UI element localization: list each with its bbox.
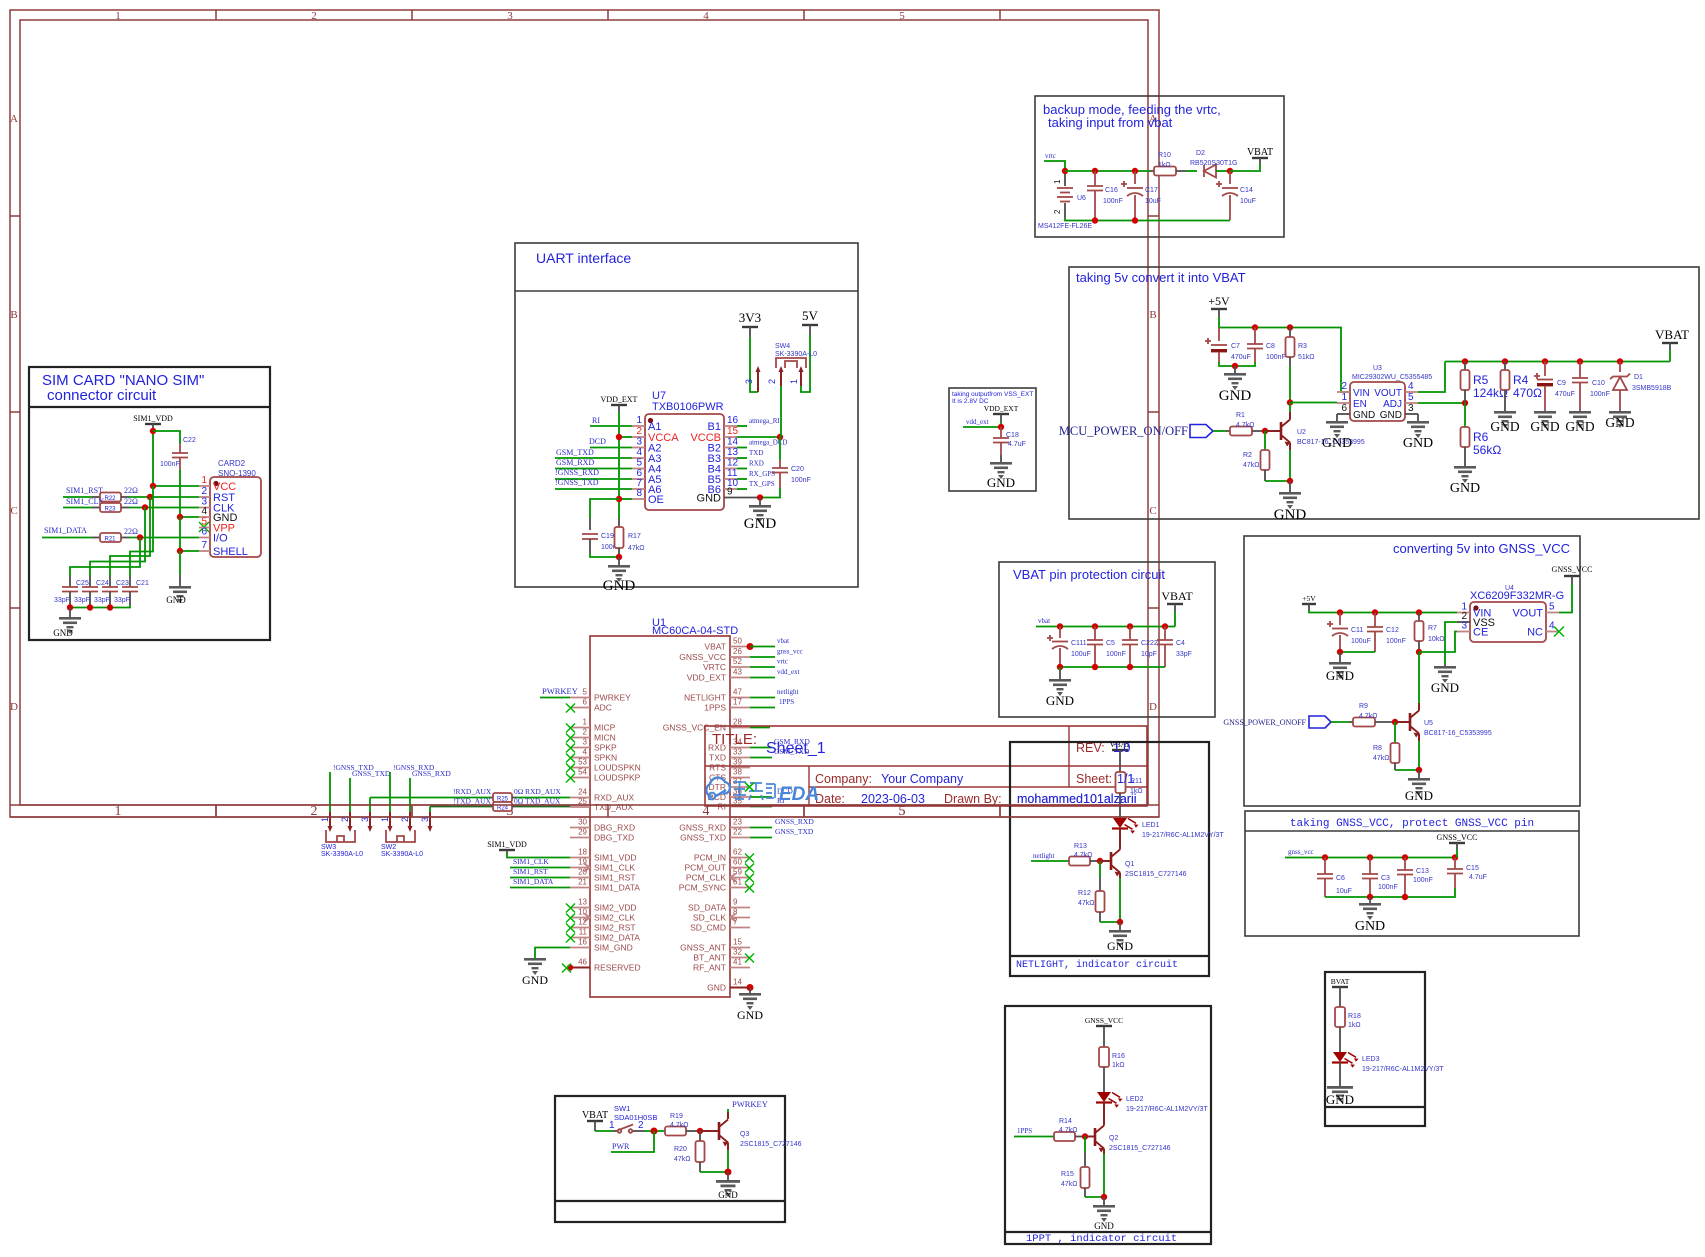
junction C6 top [1322, 854, 1328, 860]
svg-text:GNSS_RXD: GNSS_RXD [412, 769, 451, 778]
junction vdd_ext [998, 424, 1004, 430]
svg-text:100nF: 100nF [1386, 638, 1406, 645]
svg-text:TXD: TXD [709, 753, 726, 763]
svg-text:R18: R18 [1348, 1013, 1361, 1020]
wire C19 bottom to GND node [590, 553, 619, 557]
svg-text:VBAT pin protection circuit: VBAT pin protection circuit [1013, 567, 1165, 582]
svg-text:1: 1 [1053, 179, 1062, 184]
op-amp U7 TXB0106PWR body [645, 414, 724, 510]
svg-text:C20: C20 [791, 466, 804, 473]
frame row ticks right [1148, 216, 1159, 608]
svg-text:39: 39 [733, 758, 742, 767]
svg-text:5: 5 [1549, 602, 1555, 613]
svg-text:!GNSS_RXD: !GNSS_RXD [555, 468, 599, 477]
resistor R12 [1078, 877, 1105, 922]
net label GNSS_RXD wire [750, 827, 772, 829]
wire bottom rail backup [1065, 218, 1230, 221]
switch SW4 SK-3390A-L0 [744, 343, 817, 437]
svg-text:17: 17 [733, 698, 742, 707]
U1 pin 50 VBAT [704, 637, 753, 652]
svg-text:GND: GND [603, 578, 636, 594]
svg-text:2: 2 [201, 486, 207, 497]
wire R12 bottom to emitter node [1100, 921, 1120, 923]
SIM block title divider [29, 406, 270, 408]
svg-text:51kΩ: 51kΩ [1298, 354, 1315, 361]
U1 pin 30 DBG_RXD [570, 818, 635, 833]
svg-text:1: 1 [583, 718, 588, 727]
power flag BVAT [1331, 977, 1350, 1007]
UART block border [515, 243, 858, 587]
U3 pin 6 GND [1337, 403, 1375, 421]
svg-text:U2: U2 [1297, 429, 1306, 436]
svg-text:5: 5 [1408, 392, 1414, 403]
resistor R1 [1226, 412, 1265, 436]
U7 pin 3 A2 [632, 437, 661, 455]
svg-text:CARD2: CARD2 [218, 459, 246, 468]
svg-text:47kΩ: 47kΩ [1078, 900, 1095, 907]
wire caps bottom rail [70, 605, 130, 608]
svg-text:470uF: 470uF [1555, 391, 1575, 398]
U7 pin 6 A5 [632, 468, 661, 486]
svg-text:gnss_vcc: gnss_vcc [1288, 848, 1314, 856]
resistor R25 [490, 787, 524, 803]
junction emitter node U5 [1416, 767, 1422, 773]
svg-text:taking outputfrom VSS_EXT: taking outputfrom VSS_EXT [952, 391, 1033, 398]
capacitor C6 [1317, 858, 1352, 898]
svg-text:SW3: SW3 [321, 844, 336, 851]
ground GND under Q2 [1093, 1197, 1115, 1231]
U1 pin 52 VRTC [703, 657, 750, 672]
capacitor C13 [1397, 858, 1433, 898]
diode D2 RB520S30T1G [1186, 150, 1237, 178]
net GSM_TXD wire [555, 457, 632, 459]
wire +5V rail [1219, 317, 1350, 392]
svg-text:6: 6 [1341, 403, 1347, 414]
ground GND under C11 [1326, 652, 1354, 683]
svg-text:SIM2_DATA: SIM2_DATA [594, 933, 640, 943]
resistor R7 [1415, 613, 1445, 653]
capacitor C5 [1087, 627, 1126, 668]
EasyEDA logo [706, 778, 819, 805]
svg-text:2: 2 [1053, 209, 1062, 214]
junction DATA tap [137, 534, 143, 540]
svg-text:19-217/R6C-AL1M2VY/3T: 19-217/R6C-AL1M2VY/3T [1142, 832, 1224, 839]
svg-text:5: 5 [583, 688, 588, 697]
svg-text:4.7kΩ: 4.7kΩ [1059, 1127, 1077, 1134]
LED LED2 [1096, 1092, 1208, 1113]
U3 pin 5 ADJ [1383, 392, 1418, 410]
wire SHELL row [180, 550, 199, 552]
wire !GNSS_RXD down to SW2 pin1 [389, 772, 391, 812]
svg-text:SIM2_CLK: SIM2_CLK [594, 913, 635, 923]
svg-text:2: 2 [767, 379, 777, 384]
junction SHELL row [177, 548, 183, 554]
CARD2 pin 4 GND [199, 506, 238, 524]
svg-text:12: 12 [578, 918, 587, 927]
svg-text:RXD_AUX: RXD_AUX [525, 787, 561, 796]
svg-text:vbat: vbat [1038, 617, 1050, 625]
svg-text:33pF: 33pF [114, 597, 130, 604]
svg-text:GNSS_VCC: GNSS_VCC [1437, 833, 1478, 842]
svg-text:NETLIGHT, indicator circuit: NETLIGHT, indicator circuit [1016, 959, 1178, 971]
svg-text:33: 33 [733, 748, 742, 757]
wire netport to R1 [1213, 430, 1226, 432]
U1 pin 60 PCM_OUT [684, 858, 754, 873]
junction C3 top [1367, 854, 1373, 860]
capacitor C19 [582, 518, 621, 553]
ground GND under U2 [1274, 481, 1307, 523]
svg-text:22Ω: 22Ω [124, 486, 138, 495]
svg-text:GND: GND [744, 516, 777, 532]
net !GNSS_RXD wire [555, 478, 632, 480]
svg-text:A: A [10, 113, 18, 125]
svg-text:2023-06-03: 2023-06-03 [861, 792, 925, 806]
svg-text:D: D [1149, 701, 1157, 713]
svg-text:C12: C12 [1386, 627, 1399, 634]
wire RST tap staircase to C23 [110, 497, 150, 576]
junction C5 top [1092, 623, 1098, 629]
svg-text:R9: R9 [1359, 703, 1368, 710]
svg-text:4: 4 [1408, 381, 1414, 392]
svg-text:4: 4 [703, 804, 710, 819]
ground GND under protection [1046, 667, 1074, 708]
sheet frame outer border [10, 10, 1159, 817]
svg-text:VOUT: VOUT [1374, 388, 1402, 399]
U1 pin 37 DTR [709, 777, 754, 792]
svg-text:SIM1_RST: SIM1_RST [594, 873, 636, 883]
svg-text:MICP: MICP [594, 723, 616, 733]
svg-text:XC6209F332MR-G: XC6209F332MR-G [1470, 590, 1564, 602]
sheet frame inner border [20, 20, 1148, 805]
U7 pin 2 VCCA [632, 426, 679, 444]
resistor R13 [1069, 843, 1100, 866]
U1 pin 53 LOUDSPKN [566, 758, 641, 773]
svg-text:100nF: 100nF [1378, 884, 1398, 891]
svg-text:61: 61 [733, 878, 742, 887]
ground GND under U1 pin14 [737, 988, 763, 1023]
U1 pin 9 SD_DATA [688, 898, 750, 913]
svg-text:taking 5v convert it into VBAT: taking 5v convert it into VBAT [1076, 270, 1246, 285]
svg-text:1kΩ: 1kΩ [1348, 1022, 1361, 1029]
svg-text:!GNSS_TXD: !GNSS_TXD [555, 478, 599, 487]
U7 pin 10 B6 [708, 478, 739, 496]
svg-text:Your Company: Your Company [881, 772, 964, 786]
svg-text:Sheet:: Sheet: [1076, 772, 1112, 786]
svg-text:U5: U5 [1424, 720, 1433, 727]
power flag VBAT netlight [1110, 740, 1131, 772]
junction base node [1262, 428, 1268, 434]
junction C4 top [1162, 623, 1168, 629]
LED LED3 [1332, 1052, 1444, 1073]
svg-text:SPKN: SPKN [594, 753, 617, 763]
junction Q3 emitter node [725, 1169, 732, 1176]
U7 pin 11 B5 [708, 468, 738, 486]
svg-text:RTS: RTS [709, 763, 726, 773]
svg-text:100nF: 100nF [791, 477, 811, 484]
capacitor C9 polarized [1534, 362, 1575, 412]
U1 pin 23 GNSS_RXD [679, 818, 750, 833]
junction R17 bottom [616, 554, 622, 560]
junction C16 top [1092, 168, 1098, 174]
wire R2 bottom to emitter node [1265, 480, 1290, 482]
svg-text:GND: GND [522, 973, 548, 987]
wire base node down to R20 [699, 1131, 701, 1141]
wire VCCA [619, 436, 632, 438]
svg-text:16: 16 [727, 415, 739, 426]
U1 pin 59 PCM_CLK [686, 868, 754, 883]
svg-text:4.7kΩ: 4.7kΩ [1236, 422, 1254, 429]
junction C8 top [1252, 324, 1258, 330]
resistor R24 [490, 797, 524, 812]
junction EN node [1287, 399, 1293, 405]
svg-text:MICN: MICN [594, 733, 616, 743]
svg-text:DBG_RXD: DBG_RXD [594, 823, 635, 833]
svg-text:R1: R1 [1236, 412, 1245, 419]
svg-text:4: 4 [583, 748, 588, 757]
svg-text:C4: C4 [1176, 640, 1185, 647]
U1 pin 24 RXD_AUX [570, 788, 634, 803]
svg-text:BT_ANT: BT_ANT [693, 953, 726, 963]
svg-text:PWRKEY: PWRKEY [594, 693, 631, 703]
svg-text:GND: GND [1490, 419, 1519, 434]
wire Q3 emitter down [727, 1150, 729, 1172]
svg-text:R2: R2 [1243, 452, 1252, 459]
connector CARD2 SNO-1390 body [210, 459, 261, 557]
U4 pin 4 NC [1527, 621, 1559, 639]
svg-text:C19: C19 [601, 533, 614, 540]
svg-text:ADC: ADC [594, 703, 612, 713]
svg-text:VBAT: VBAT [582, 1110, 608, 1121]
svg-text:1: 1 [1341, 392, 1347, 403]
wire vdd_ext [963, 421, 1001, 427]
title block values redraw over components [1017, 741, 1137, 806]
svg-text:26: 26 [733, 647, 742, 656]
net label netlight wire [1031, 860, 1069, 862]
U1 pin 46 RESERVED [562, 958, 641, 973]
svg-text:100uF: 100uF [1071, 651, 1091, 658]
svg-text:taking GNSS_VCC, protect GNSS_: taking GNSS_VCC, protect GNSS_VCC pin [1290, 818, 1534, 830]
svg-text:GND: GND [1380, 410, 1402, 421]
wire !GNSS_TXD down to SW3 pin1 [329, 772, 331, 812]
svg-text:vbat: vbat [777, 637, 789, 645]
wire C22 bottom to GND column [179, 470, 181, 517]
svg-text:MS412FE-FL26E: MS412FE-FL26E [1038, 223, 1092, 230]
svg-text:10kΩ: 10kΩ [1428, 636, 1445, 643]
wire base node to Q3 [700, 1130, 719, 1132]
svg-text:VBAT: VBAT [1247, 147, 1273, 158]
power flag VBAT protection [1161, 589, 1193, 612]
svg-text:4.7kΩ: 4.7kΩ [670, 1122, 688, 1129]
svg-text:RX_GPS: RX_GPS [749, 470, 775, 478]
svg-text:10uF: 10uF [1336, 888, 1352, 895]
frame column ticks bottom [216, 805, 1000, 817]
svg-text:9: 9 [733, 898, 738, 907]
power flag +5V small [1302, 594, 1316, 610]
svg-text:R4: R4 [1513, 373, 1529, 387]
svg-text:56kΩ: 56kΩ [1473, 443, 1501, 457]
junction Q1 emitter node [1117, 919, 1123, 925]
CARD2 pin 6 I/O [199, 527, 228, 545]
switch SW3 SK-3390A-L0 [320, 812, 373, 858]
svg-text:1PPT , indicator circuit: 1PPT , indicator circuit [1026, 1233, 1177, 1245]
svg-text:43: 43 [733, 668, 742, 677]
svg-text:C15: C15 [1466, 865, 1479, 872]
wire R22 to CARD2 RST [121, 496, 129, 498]
svg-text:R7: R7 [1428, 625, 1437, 632]
junction vrtc node [1062, 168, 1068, 174]
U7 pin 8 OE [632, 488, 664, 506]
svg-text:GND: GND [1565, 419, 1594, 434]
svg-text:netlight: netlight [777, 688, 798, 696]
net label SIM1_RST wire [510, 877, 570, 879]
junction CLK tap [142, 504, 148, 510]
U1 pin 33 TXD [709, 748, 750, 763]
svg-text:1: 1 [609, 1120, 615, 1131]
svg-text:100nF: 100nF [1590, 391, 1610, 398]
svg-text:100nF: 100nF [1413, 877, 1433, 884]
svg-text:4.7uF: 4.7uF [1469, 874, 1487, 881]
svg-text:35: 35 [733, 797, 742, 806]
wire R23 to CARD2 CLK [121, 507, 129, 509]
U1 pin 29 DBG_TXD [570, 828, 634, 843]
svg-text:RXD_AUX: RXD_AUX [594, 793, 634, 803]
svg-text:6: 6 [583, 698, 588, 707]
svg-text:PCM_OUT: PCM_OUT [684, 863, 726, 873]
svg-text:TXD_AUX: TXD_AUX [594, 802, 634, 812]
wire VOUT to VBAT rail [1418, 362, 1445, 393]
svg-text:RXD: RXD [749, 460, 764, 468]
junction Q2 emitter node [1101, 1194, 1107, 1200]
svg-text:30: 30 [578, 818, 587, 827]
svg-text:SD_CLK: SD_CLK [693, 913, 726, 923]
svg-text:connector circuit: connector circuit [47, 387, 157, 404]
wire LED2 to Q2 collector [1103, 1103, 1105, 1122]
wire GNSS_VCC stem [1456, 850, 1458, 858]
svg-text:C21: C21 [136, 580, 149, 587]
svg-text:GND: GND [1605, 415, 1634, 430]
ground GND under C10 [1565, 411, 1594, 434]
net label RI wire [750, 806, 772, 808]
wire base node down to R15 [1084, 1137, 1086, 1153]
ground GND under Q1 [1107, 922, 1133, 953]
svg-text:SIM2_VDD: SIM2_VDD [594, 903, 637, 913]
svg-text:SIM1_VDD: SIM1_VDD [133, 414, 173, 423]
ground GND under U5 [1405, 770, 1433, 803]
ground GND under GNSS protect [1355, 897, 1385, 934]
svg-text:TXB0106PWR: TXB0106PWR [652, 401, 724, 413]
svg-text:vrtc: vrtc [1045, 152, 1056, 160]
svg-text:8: 8 [636, 488, 642, 499]
svg-text:47kΩ: 47kΩ [1243, 462, 1260, 469]
svg-text:100nF: 100nF [1266, 354, 1286, 361]
svg-text:GSM_TXD: GSM_TXD [556, 448, 594, 457]
net label PWRKEY wire [540, 697, 570, 699]
junction Q2 base node [1082, 1133, 1088, 1139]
power flag 3V3 [739, 310, 761, 337]
svg-text:VRTC: VRTC [703, 662, 726, 672]
U1 pin 62 PCM_IN [694, 848, 754, 863]
wire 5V down and to SW4 pin1 [800, 335, 810, 392]
U1 pin 47 NETLIGHT [684, 688, 750, 703]
svg-text:PCM_CLK: PCM_CLK [686, 873, 726, 883]
svg-text:R23: R23 [104, 507, 116, 513]
svg-text:24: 24 [578, 788, 587, 797]
svg-text:GND: GND [1094, 1221, 1114, 1231]
switch SW2 SK-3390A-L0 [380, 812, 433, 858]
svg-text:R17: R17 [628, 533, 641, 540]
wire SW1 to R19 junction [645, 1130, 665, 1132]
svg-text:C3: C3 [1381, 875, 1390, 882]
svg-text:1kΩ: 1kΩ [1158, 162, 1171, 169]
svg-text:R12: R12 [1078, 890, 1091, 897]
U1 pin 39 RTS [709, 758, 750, 773]
net DCD wire [590, 447, 632, 449]
svg-text:U6: U6 [1077, 195, 1086, 202]
svg-text:netlight: netlight [1033, 852, 1054, 860]
svg-text:PWRKEY: PWRKEY [732, 1099, 768, 1109]
svg-text:SK-3390A-L0: SK-3390A-L0 [381, 851, 423, 858]
svg-text:100nF: 100nF [1106, 651, 1126, 658]
svg-text:VDD_EXT: VDD_EXT [687, 673, 726, 683]
VBAT protection border [999, 562, 1215, 717]
svg-text:C22: C22 [183, 437, 196, 444]
power flag +5V [1208, 294, 1230, 317]
svg-text:GND: GND [1355, 919, 1385, 934]
net port MCU_POWER_ON/OFF [1059, 424, 1213, 438]
svg-text:SIM_GND: SIM_GND [594, 943, 633, 953]
svg-text:47kΩ: 47kΩ [1061, 1181, 1078, 1188]
svg-text:GND: GND [1353, 410, 1375, 421]
svg-text:GND: GND [707, 983, 726, 993]
U1 pin 19 SIM1_CLK [570, 858, 635, 873]
svg-text:mohammed101alzarii: mohammed101alzarii [1017, 792, 1137, 806]
svg-text:RB520S30T1G: RB520S30T1G [1190, 160, 1237, 167]
svg-text:22: 22 [733, 828, 742, 837]
svg-text:Sheet_1: Sheet_1 [766, 740, 826, 757]
U4 pin 3 CE [1457, 621, 1488, 639]
U7 pin 9 GND [697, 487, 760, 505]
svg-text:14: 14 [733, 978, 742, 987]
svg-text:29: 29 [578, 828, 587, 837]
svg-text:R16: R16 [1112, 1053, 1125, 1060]
svg-text:vdd_ext: vdd_ext [966, 418, 989, 426]
svg-text:21: 21 [578, 878, 587, 887]
svg-text:SIM1_CLK: SIM1_CLK [513, 857, 549, 866]
svg-text:100nF: 100nF [1103, 198, 1123, 205]
wire base node to Q base [1265, 430, 1281, 432]
wire vrtc to battery top [1044, 161, 1065, 171]
svg-text:C111: C111 [1071, 640, 1087, 647]
U1 pin 43 VDD_EXT [687, 668, 750, 683]
net label vbat wire [750, 646, 775, 648]
svg-text:SIM1_DATA: SIM1_DATA [594, 883, 640, 893]
svg-text:C14: C14 [1240, 187, 1253, 194]
U1 pin 15 GNSS_ANT [680, 938, 750, 953]
net label netlight wire [750, 697, 775, 699]
svg-text:vrtc: vrtc [777, 658, 788, 666]
SW1 caption divider [555, 1200, 785, 1202]
VSS_EXT box border [949, 388, 1036, 491]
U7 pin 4 A3 [632, 447, 661, 465]
transistor Q2 2SC1815 [1095, 1121, 1171, 1154]
GNSS_VCC protect border [1245, 811, 1579, 936]
svg-text:LOUDSPKN: LOUDSPKN [594, 763, 641, 773]
svg-text:3: 3 [1461, 621, 1467, 632]
svg-text:LOUDSPKP: LOUDSPKP [594, 773, 641, 783]
wire SW3 pin3 up to RXD_AUX run [369, 798, 371, 813]
junction R7 top [1416, 609, 1422, 615]
svg-text:4.7kΩ: 4.7kΩ [1074, 852, 1092, 859]
